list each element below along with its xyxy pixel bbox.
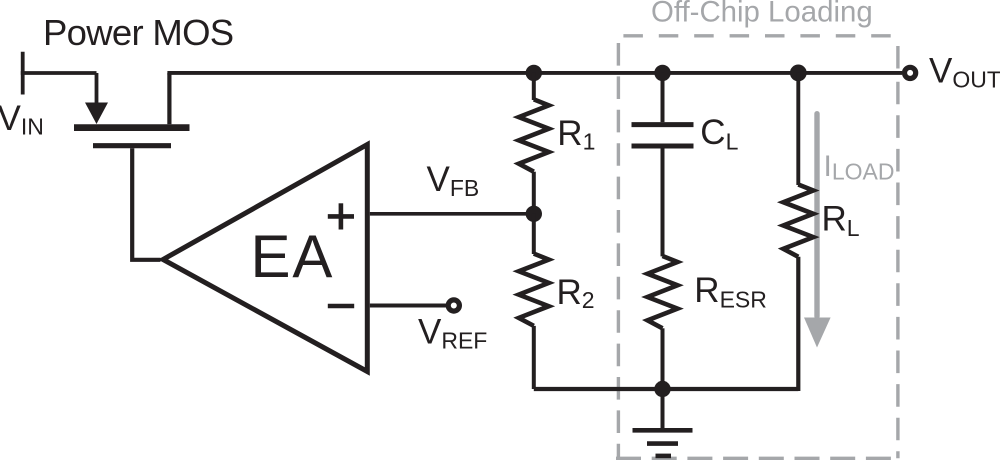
off-chip loading dashed box [616,36,898,459]
node: V_OUT rail / R1 top junction [526,65,542,81]
transistor Q1 gate bar [93,143,171,148]
wire: drain up to output rail [167,73,171,124]
terminal circle V_OUT [905,67,916,78]
svg-text:EA: EA [251,223,335,290]
wire: C_L bottom lead to R_ESR [661,148,665,256]
minus input symbol [328,304,354,309]
wire: V_REF into - input [370,304,446,308]
wire: gate stem down to EA output [132,148,160,259]
node: C_L top junction [654,65,670,81]
wire: top output rail [167,71,902,75]
I_LOAD gray arrow [804,111,831,348]
transistor Q1 channel bar [74,124,190,131]
resistor R_ESR [648,256,678,328]
wire: bottom ground rail [534,387,799,391]
wire: V_IN to gate-arrow branch [21,71,97,75]
wire: R1 bottom lead [532,172,536,214]
capacitor C_L [632,122,694,127]
resistor R1 [519,99,549,171]
plus input symbol [328,214,354,219]
svg-text:Power MOS: Power MOS [43,12,233,53]
wire: source arrow stem [95,73,99,104]
wire: R_L top lead [796,73,800,185]
node: feedback tap junction [526,206,542,222]
wire: R2 top lead [532,214,536,254]
wire: R_ESR bottom lead [661,328,665,389]
ground [633,389,693,456]
arrow into MOSFET source [85,103,108,125]
node: R_L top junction [790,65,807,82]
resistor R_L [783,185,813,257]
wire: V_IN terminal bar [21,52,25,95]
node: ground junction [654,381,670,397]
resistor R2 [519,254,549,326]
wire: C_L top lead [661,73,665,122]
wire: R2 bottom lead to ground rail [532,326,536,389]
wire: R1 top lead [532,73,536,100]
op-amp EA triangle [163,145,367,372]
wire: V_FB from + input to divider tap [370,212,534,216]
svg-text:Off-Chip Loading: Off-Chip Loading [651,0,873,28]
terminal circle V_REF [448,300,459,311]
wire: R_L bottom lead [796,257,800,391]
